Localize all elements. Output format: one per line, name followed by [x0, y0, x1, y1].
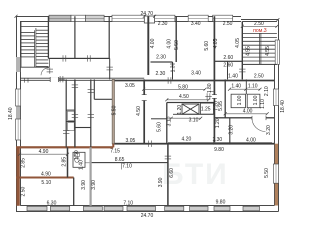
svg-text:4.00: 4.00 — [243, 109, 253, 115]
svg-text:6.30: 6.30 — [47, 200, 57, 206]
svg-text:2.50: 2.50 — [254, 74, 264, 80]
window right 2 — [273, 164, 278, 183]
opening TR door — [239, 67, 245, 73]
svg-text:4.90: 4.90 — [41, 171, 51, 177]
dim tick x121.5 — [121, 163, 123, 170]
svg-text:5.95: 5.95 — [218, 101, 224, 111]
window TR stair — [275, 40, 279, 64]
window top 3 — [86, 15, 105, 21]
wall y61.3 right — [214, 61, 242, 62]
top outer wall — [16, 17, 241, 22]
wc toilet — [74, 154, 79, 157]
svg-text:1.25: 1.25 — [201, 107, 211, 113]
opening x90.8 a — [88, 88, 94, 94]
wall x94.3 — [94, 79, 95, 99]
right wall brown fill 1 — [275, 144, 278, 164]
window left 1 — [16, 89, 21, 106]
wall x109.2 top — [109, 16, 110, 58]
svg-text:1.40: 1.40 — [231, 84, 241, 90]
opening y79.4 b — [166, 77, 172, 83]
wall y121.5 — [66, 121, 75, 122]
fixture box left 2 — [67, 123, 74, 131]
svg-text:1.30: 1.30 — [171, 62, 177, 72]
t h — [170, 117, 173, 120]
corridor wall lower line left — [20, 79, 113, 81]
t d — [165, 98, 168, 101]
svg-text:4.00: 4.00 — [246, 137, 256, 143]
dim line 1.40c — [230, 88, 246, 90]
left wall gray block 1 — [16, 57, 20, 72]
wall x225.2 — [225, 79, 226, 117]
corridor wall thick right — [113, 80, 274, 82]
svg-text:1.30: 1.30 — [212, 137, 222, 143]
svg-text:1.20: 1.20 — [215, 118, 221, 128]
svg-text:1.50: 1.50 — [74, 150, 80, 160]
opening x90.8 b — [88, 113, 94, 119]
door arc TL — [41, 68, 49, 75]
dim tick y142.3 b — [229, 140, 231, 145]
wall x74.9 lower — [74, 79, 75, 147]
left wall brown fill — [16, 147, 19, 206]
wall x214.4 — [214, 16, 216, 144]
t pier R — [153, 15, 156, 18]
left wall gray block 2 — [16, 106, 20, 119]
svg-text:4.00: 4.00 — [167, 39, 173, 49]
opening TL door — [47, 67, 53, 73]
svg-text:9.80: 9.80 — [216, 200, 226, 206]
dim line y142.3 — [168, 141, 272, 143]
svg-text:18.40: 18.40 — [8, 107, 14, 120]
svg-text:3.10: 3.10 — [166, 116, 172, 126]
window top 7 — [213, 15, 233, 21]
wall y162.6 — [91, 162, 168, 163]
window top 4 — [112, 15, 145, 21]
t b — [244, 88, 247, 91]
opening y58.4 b — [86, 55, 92, 61]
closet box 2 — [247, 94, 260, 108]
wall y117.8 right — [214, 117, 274, 118]
wall x67.5 roomA right — [67, 147, 69, 177]
staircase TL rail — [35, 28, 36, 67]
svg-text:7.15: 7.15 — [110, 148, 120, 154]
t f — [142, 88, 145, 91]
opening x167.9 — [165, 154, 171, 160]
lift small room — [201, 103, 214, 114]
opening x74.9 a — [72, 83, 78, 89]
staircase TL steps left — [21, 32, 35, 57]
cross 4.50 — [205, 93, 211, 99]
t c — [259, 88, 262, 91]
wall x90.8 — [90, 79, 91, 147]
svg-text:4.00: 4.00 — [150, 38, 156, 48]
left outer wall — [17, 16, 21, 212]
t j — [224, 112, 227, 115]
wall y114.3 — [173, 113, 214, 116]
window top 6 — [188, 15, 208, 21]
svg-text:2.30: 2.30 — [156, 55, 166, 61]
t k — [266, 112, 269, 115]
wall x176.2 — [176, 16, 177, 62]
t top R — [276, 18, 279, 21]
tick 2.50 L — [241, 25, 244, 28]
svg-text:4.20: 4.20 — [182, 137, 192, 143]
window top 1 — [49, 15, 71, 21]
lift shaft — [182, 104, 199, 114]
svg-text:2.60: 2.60 — [223, 63, 233, 69]
wall y102.5 lobby top — [167, 102, 215, 103]
dim line 4.90a — [20, 153, 68, 155]
svg-text:2.10: 2.10 — [264, 86, 270, 96]
dim line 1.80 — [210, 91, 215, 93]
brown wall y147.3 — [16, 146, 113, 148]
svg-text:1.20: 1.20 — [177, 105, 183, 115]
opening x74.9 b — [72, 113, 78, 119]
svg-text:24.70: 24.70 — [141, 213, 154, 219]
corridor door gap — [50, 78, 58, 81]
svg-text:пом.3: пом.3 — [253, 28, 267, 34]
svg-text:8.65: 8.65 — [115, 157, 125, 163]
staircase TL steps right — [36, 30, 49, 66]
dim line 4.50mid — [167, 99, 209, 101]
wall x229.8 — [229, 118, 230, 144]
wall x74.9 top — [74, 16, 75, 58]
svg-text:1.40: 1.40 — [78, 160, 84, 170]
svg-text:1.40: 1.40 — [228, 74, 238, 80]
svg-text:3.10: 3.10 — [189, 117, 199, 123]
wall y110.1 — [66, 110, 75, 111]
wall x144.2 — [143, 79, 145, 143]
window bottom 5 — [127, 206, 156, 211]
svg-text:3.90: 3.90 — [91, 180, 97, 190]
wall y143.7 — [112, 143, 274, 145]
wall y62.0 closet — [151, 61, 173, 62]
svg-text:5.50: 5.50 — [264, 168, 270, 178]
svg-text:3.05: 3.05 — [126, 138, 136, 144]
staircase TR rail — [260, 33, 261, 64]
wall x73.7 roomB right — [73, 178, 74, 206]
svg-text:2.50: 2.50 — [254, 21, 264, 27]
right wall brown fill 2 — [275, 183, 278, 205]
svg-text:4.50: 4.50 — [136, 106, 142, 116]
svg-text:2.30: 2.30 — [158, 21, 168, 27]
wall x167.9 lower — [167, 144, 169, 206]
top wall pier — [144, 16, 154, 23]
svg-text:5.50: 5.50 — [112, 105, 118, 115]
window bottom 4 — [104, 206, 123, 211]
wall x113.3 — [112, 79, 114, 143]
staircase TR left wall — [242, 21, 243, 79]
opening x66.2 — [63, 129, 69, 135]
t top L — [15, 15, 18, 18]
corridor wall upper line — [20, 77, 144, 79]
svg-text:3.20: 3.20 — [228, 125, 234, 135]
t i — [199, 117, 202, 120]
t g — [204, 88, 207, 91]
svg-text:6.60: 6.60 — [169, 168, 175, 178]
opening y58.4 a — [61, 55, 67, 61]
svg-text:2.50: 2.50 — [21, 187, 27, 197]
window bottom 9 — [243, 206, 260, 211]
window bottom 3 — [83, 206, 102, 211]
opening x109.7 — [107, 65, 113, 71]
door y117.8 — [252, 117, 266, 119]
svg-text:2.85: 2.85 — [61, 157, 67, 167]
wall x90.6 lower gray — [90, 147, 92, 206]
svg-text:4.05: 4.05 — [213, 38, 219, 48]
dim line 1.10c — [247, 88, 260, 90]
svg-text:2.30: 2.30 — [156, 71, 166, 77]
svg-text:4.90: 4.90 — [39, 149, 49, 155]
svg-text:5.80: 5.80 — [178, 84, 188, 90]
dim line 3.10 — [171, 117, 201, 119]
t e — [207, 98, 210, 101]
svg-text:3.90: 3.90 — [81, 180, 87, 190]
dim tick y142.3 a — [213, 140, 215, 145]
svg-text:3.40: 3.40 — [191, 21, 201, 27]
tick 2.50 R — [275, 25, 278, 28]
opening y143.7 b — [147, 141, 153, 147]
t pier L — [143, 15, 146, 18]
svg-text:5.50: 5.50 — [174, 40, 180, 50]
svg-text:4.55: 4.55 — [265, 46, 271, 56]
t a — [228, 88, 231, 91]
wall x172.5 — [172, 62, 173, 79]
wall x66.2 — [66, 79, 67, 147]
svg-text:7.10: 7.10 — [122, 164, 132, 170]
t l — [18, 153, 21, 156]
window bottom 7 — [190, 206, 208, 211]
svg-text:1.00: 1.00 — [237, 95, 243, 105]
svg-text:4.50: 4.50 — [179, 94, 189, 100]
svg-text:18.40: 18.40 — [280, 100, 286, 113]
wall y118.8 stub — [151, 118, 167, 119]
bottom outer wall — [16, 206, 279, 212]
svg-text:3.05: 3.05 — [125, 83, 135, 89]
svg-text:1.80: 1.80 — [207, 83, 213, 93]
wall y58.4 — [48, 58, 109, 59]
wall y99.3 — [94, 99, 112, 100]
wall x109.7 mid — [109, 58, 110, 79]
fixture box left 1 — [67, 111, 74, 120]
window top 2 — [71, 15, 86, 21]
staircase TR steps — [243, 33, 277, 61]
svg-text:24.70: 24.70 — [141, 11, 154, 17]
svg-text:5.10: 5.10 — [41, 180, 51, 186]
svg-text:1.10: 1.10 — [248, 84, 258, 90]
svg-text:3.90: 3.90 — [158, 177, 164, 187]
window bottom 6 — [165, 206, 184, 211]
right outer wall — [275, 20, 279, 212]
svg-text:1.00: 1.00 — [253, 95, 259, 105]
t m — [66, 153, 69, 156]
dim line 5.80 — [144, 88, 205, 90]
opening y79.4 a — [58, 76, 64, 82]
svg-text:3.40: 3.40 — [191, 71, 201, 77]
window bottom 8 — [214, 206, 230, 211]
svg-text:5.60: 5.60 — [204, 41, 210, 51]
svg-text:3.20: 3.20 — [266, 125, 272, 135]
staircase TL enclosure — [20, 21, 49, 67]
svg-text:2.60: 2.60 — [223, 55, 233, 61]
wc box — [73, 152, 85, 167]
dim line 4.00r — [225, 113, 267, 115]
svg-text:2.85: 2.85 — [21, 158, 27, 168]
window bottom 2 — [50, 206, 69, 211]
staircase TR dim line — [242, 25, 277, 27]
svg-text:5.60: 5.60 — [157, 122, 163, 132]
door x144.2 — [143, 95, 145, 101]
window right 1 — [273, 89, 278, 106]
closet box 1 — [231, 94, 245, 108]
svg-text:7.10: 7.10 — [123, 201, 133, 207]
staircase TR landing wall — [242, 64, 277, 65]
wall x166.8 lobby — [166, 103, 167, 144]
svg-text:1.10: 1.10 — [260, 99, 266, 109]
wall x227.5 — [227, 61, 228, 79]
staircase TR top band — [241, 20, 279, 22]
window left 2 — [16, 119, 21, 140]
wall x246.3 stub — [245, 79, 248, 94]
brown wall y177.5 — [16, 177, 74, 179]
wall x113.3 brown stub — [112, 144, 114, 148]
staircase TL door jamb — [48, 58, 50, 67]
dim tail y163 — [77, 162, 91, 164]
staircase TL right wall — [48, 16, 49, 58]
wall y127.5 — [75, 127, 91, 128]
svg-text:2.50: 2.50 — [223, 21, 233, 27]
svg-text:4.05: 4.05 — [235, 38, 241, 48]
window bottom 1 — [27, 206, 47, 211]
door x214.4 — [213, 95, 215, 99]
wall x148.3 — [147, 16, 149, 75]
window top 5 — [155, 15, 175, 21]
svg-text:4.55: 4.55 — [245, 46, 251, 56]
door jambs corridor left — [25, 78, 29, 82]
svg-text:9.80: 9.80 — [214, 147, 224, 153]
